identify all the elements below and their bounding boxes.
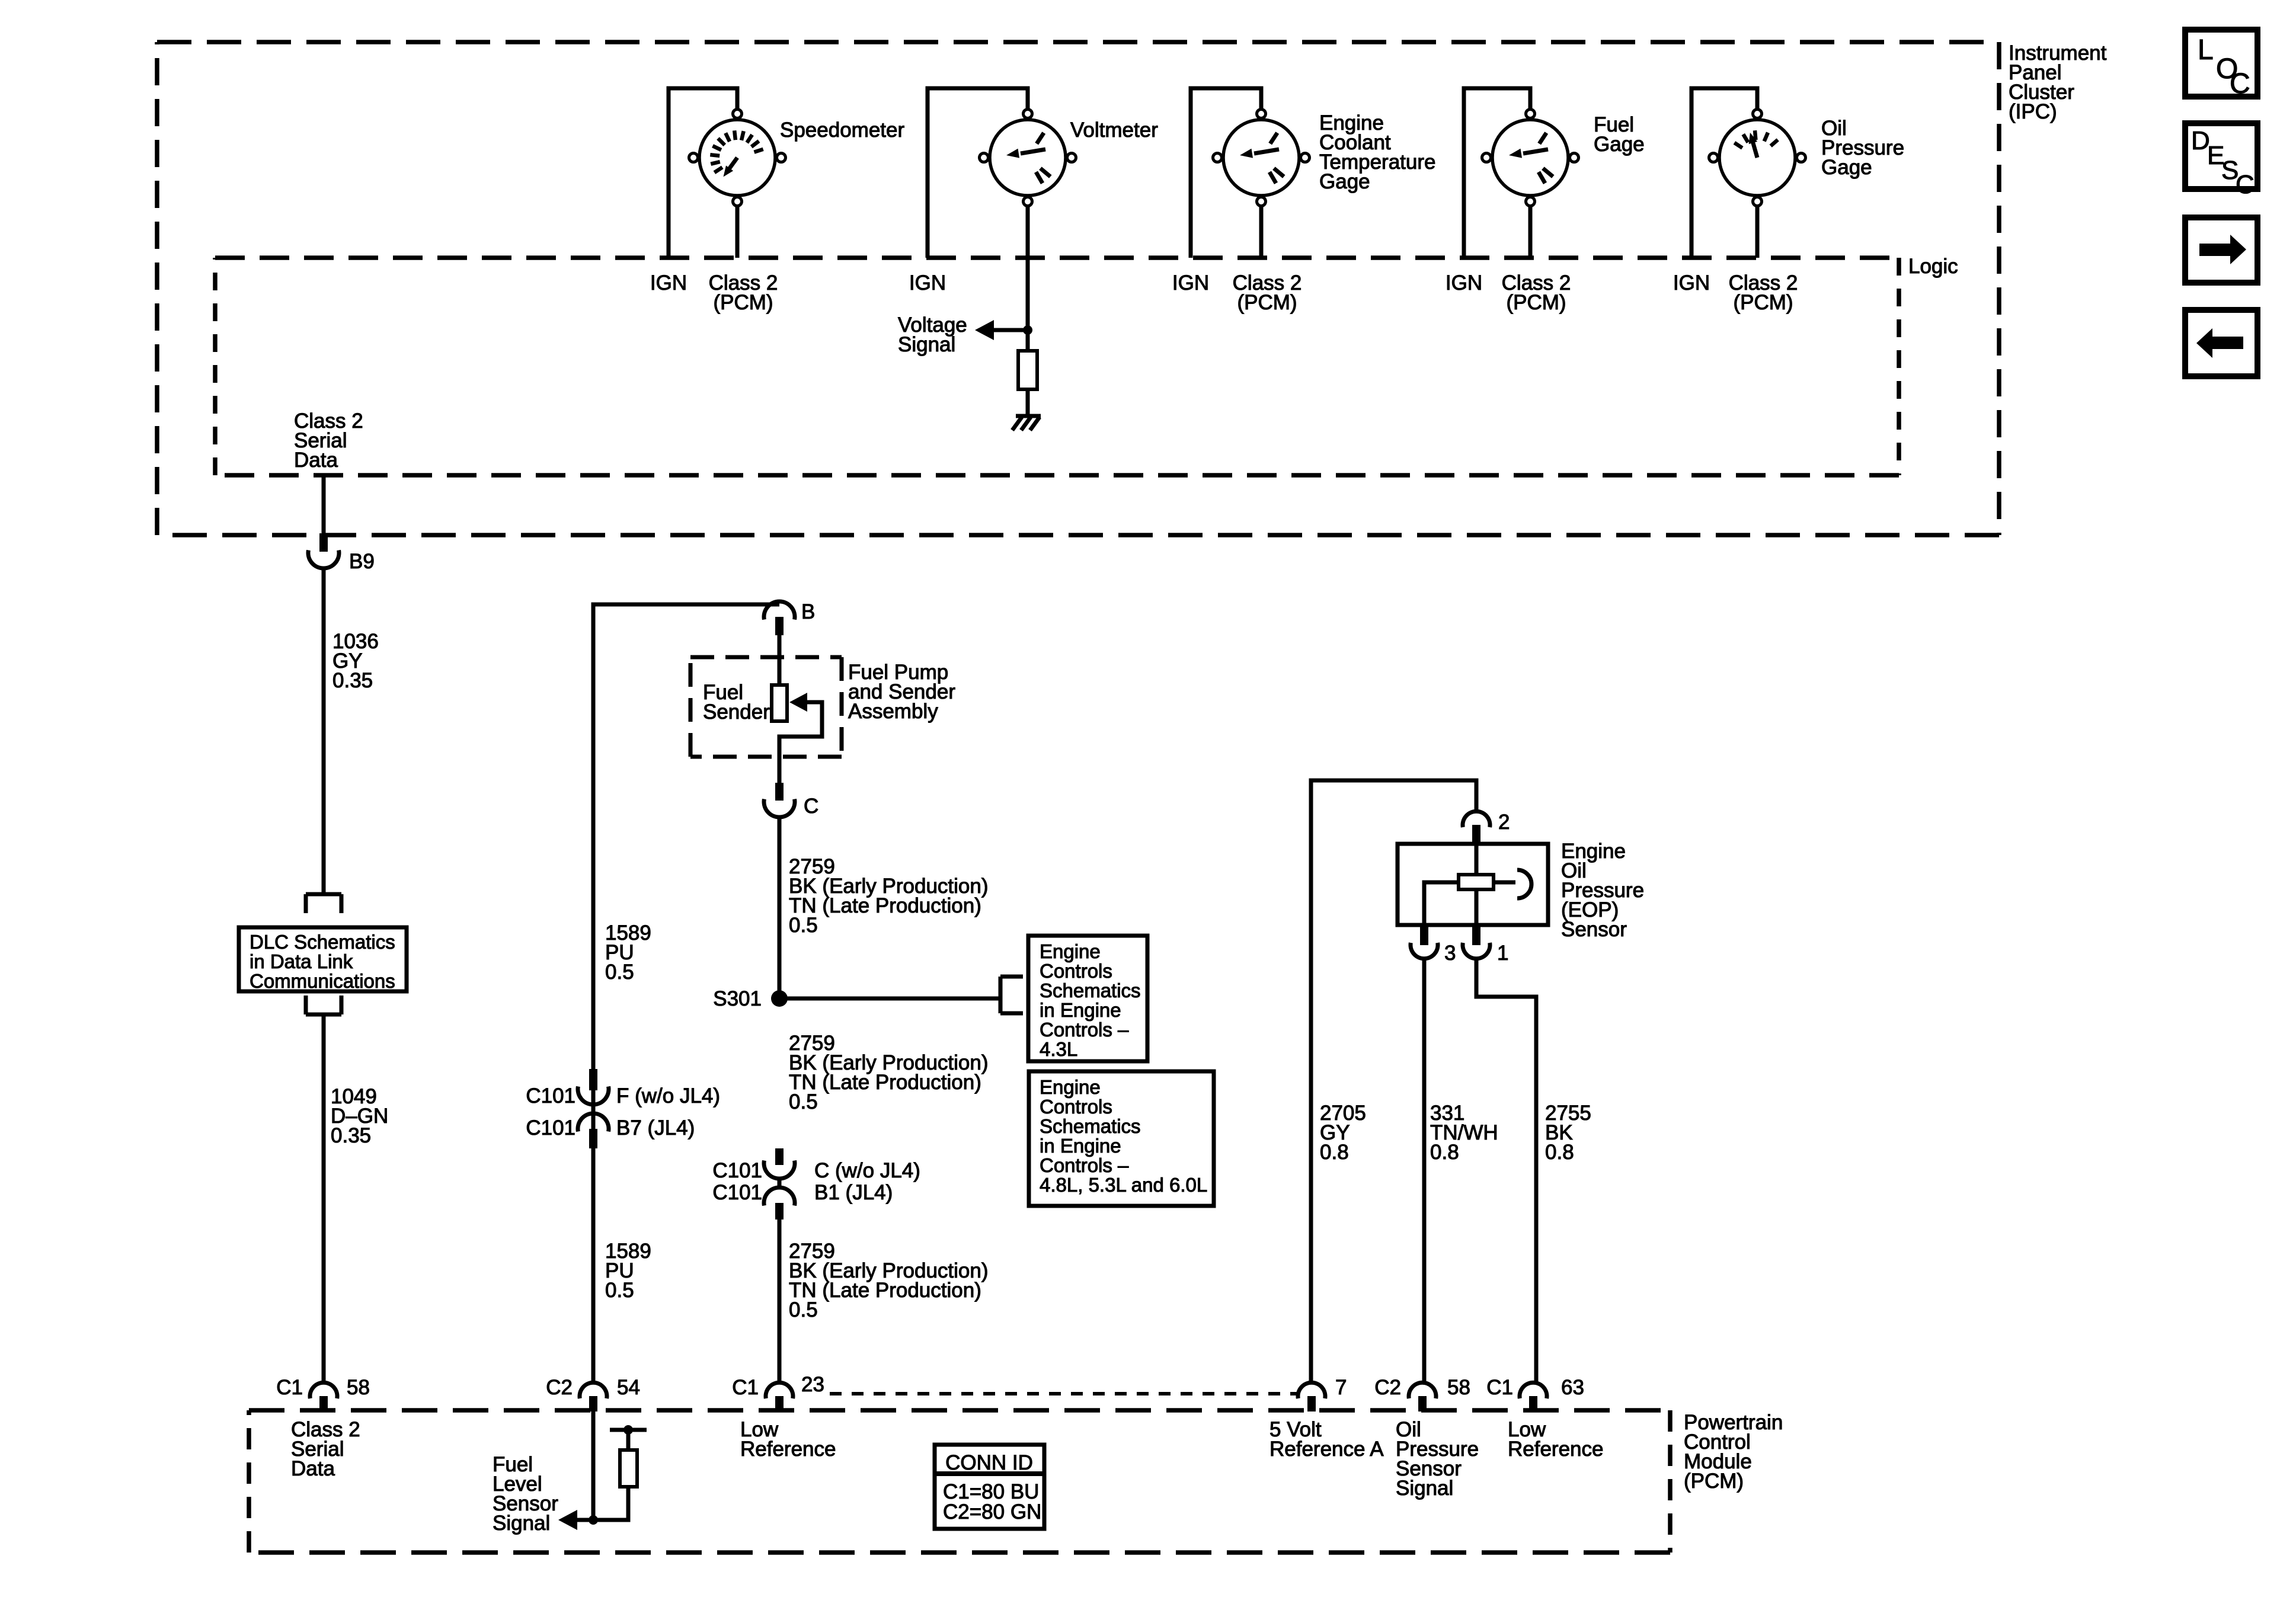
svg-text:CONN ID: CONN ID [945, 1451, 1033, 1474]
svg-text:58: 58 [347, 1376, 370, 1399]
svg-text:Assembly: Assembly [848, 700, 938, 723]
svg-text:C101: C101 [712, 1159, 762, 1182]
svg-text:Signal: Signal [898, 333, 955, 356]
svg-text:0.35: 0.35 [331, 1124, 371, 1147]
svg-text:23: 23 [801, 1373, 824, 1396]
svg-text:Gage: Gage [1319, 170, 1370, 193]
svg-text:3: 3 [1444, 942, 1456, 965]
svg-text:C101: C101 [526, 1116, 575, 1140]
svg-text:in Data Link: in Data Link [250, 950, 353, 972]
svg-text:(PCM): (PCM) [1684, 1470, 1744, 1493]
svg-text:L: L [2198, 34, 2214, 66]
svg-text:B7 (JL4): B7 (JL4) [616, 1116, 695, 1140]
svg-text:4.8L, 5.3L and 6.0L: 4.8L, 5.3L and 6.0L [1040, 1174, 1207, 1196]
svg-text:Gage: Gage [1821, 156, 1872, 179]
svg-text:B: B [801, 600, 815, 623]
svg-text:S301: S301 [713, 987, 762, 1010]
svg-text:Engine: Engine [1040, 1076, 1101, 1098]
svg-text:0.8: 0.8 [1430, 1141, 1459, 1164]
svg-text:C2: C2 [546, 1376, 573, 1399]
svg-text:C1: C1 [732, 1376, 759, 1399]
svg-text:Voltmeter: Voltmeter [1070, 119, 1158, 142]
svg-text:Controls –: Controls – [1040, 1154, 1129, 1176]
svg-text:IGN: IGN [1446, 271, 1482, 295]
svg-text:TN (Late Production): TN (Late Production) [789, 1279, 981, 1302]
svg-text:Sender: Sender [703, 700, 770, 724]
svg-text:(IPC): (IPC) [2009, 100, 2057, 123]
svg-text:IGN: IGN [650, 271, 687, 295]
svg-text:Sensor: Sensor [1561, 918, 1627, 941]
svg-text:63: 63 [1561, 1376, 1584, 1399]
svg-text:Signal: Signal [493, 1512, 550, 1535]
svg-text:IGN: IGN [909, 271, 946, 295]
svg-text:Signal: Signal [1396, 1477, 1453, 1500]
svg-text:2: 2 [1498, 811, 1510, 834]
svg-text:C: C [2236, 170, 2255, 199]
svg-text:C1: C1 [1486, 1376, 1513, 1399]
svg-text:58: 58 [1447, 1376, 1470, 1399]
svg-text:C: C [804, 795, 818, 818]
svg-text:54: 54 [617, 1376, 640, 1399]
svg-text:0.5: 0.5 [789, 1090, 818, 1113]
svg-text:C (w/o JL4): C (w/o JL4) [814, 1159, 920, 1182]
svg-text:TN (Late Production): TN (Late Production) [789, 894, 981, 917]
svg-text:0.8: 0.8 [1320, 1141, 1349, 1164]
svg-text:C101: C101 [712, 1181, 762, 1204]
svg-text:IGN: IGN [1172, 271, 1209, 295]
svg-text:0.35: 0.35 [332, 669, 373, 692]
svg-text:C101: C101 [526, 1084, 575, 1108]
svg-text:IGN: IGN [1673, 271, 1710, 295]
svg-text:0.5: 0.5 [789, 1298, 818, 1321]
svg-text:Schematics: Schematics [1040, 1115, 1141, 1137]
svg-text:Data: Data [291, 1457, 335, 1480]
svg-text:0.8: 0.8 [1545, 1141, 1574, 1164]
svg-text:F (w/o JL4): F (w/o JL4) [616, 1084, 720, 1108]
svg-text:C1: C1 [276, 1376, 303, 1399]
svg-text:B1 (JL4): B1 (JL4) [814, 1181, 893, 1204]
svg-text:4.3L: 4.3L [1040, 1038, 1077, 1060]
svg-text:Reference: Reference [740, 1438, 836, 1461]
svg-text:Logic: Logic [1908, 255, 1958, 278]
svg-text:Controls: Controls [1040, 960, 1112, 982]
svg-text:Communications: Communications [250, 970, 395, 992]
svg-text:B9: B9 [349, 550, 375, 573]
svg-text:7: 7 [1335, 1376, 1347, 1399]
svg-text:Engine: Engine [1040, 940, 1101, 962]
svg-text:Data: Data [294, 449, 338, 472]
svg-text:(PCM): (PCM) [1237, 291, 1297, 314]
svg-text:1: 1 [1497, 942, 1508, 965]
svg-text:(PCM): (PCM) [1733, 291, 1793, 314]
svg-text:Gage: Gage [1594, 133, 1645, 156]
svg-text:C2=80 GN: C2=80 GN [943, 1500, 1041, 1523]
svg-text:C2: C2 [1374, 1376, 1401, 1399]
svg-text:Controls –: Controls – [1040, 1019, 1129, 1041]
svg-text:0.5: 0.5 [605, 961, 634, 984]
svg-text:Reference: Reference [1508, 1438, 1603, 1461]
svg-text:0.5: 0.5 [789, 914, 818, 937]
svg-text:C: C [2230, 68, 2250, 100]
svg-text:TN (Late Production): TN (Late Production) [789, 1071, 981, 1094]
svg-text:(PCM): (PCM) [713, 291, 773, 314]
svg-text:in Engine: in Engine [1040, 1135, 1121, 1157]
svg-text:Reference A: Reference A [1269, 1438, 1384, 1461]
svg-text:0.5: 0.5 [605, 1279, 634, 1302]
svg-text:Speedometer: Speedometer [780, 119, 904, 142]
svg-text:Schematics: Schematics [1040, 980, 1141, 1001]
svg-text:in Engine: in Engine [1040, 999, 1121, 1021]
svg-text:DLC Schematics: DLC Schematics [250, 931, 395, 953]
svg-text:(PCM): (PCM) [1506, 291, 1566, 314]
svg-text:Controls: Controls [1040, 1096, 1112, 1118]
